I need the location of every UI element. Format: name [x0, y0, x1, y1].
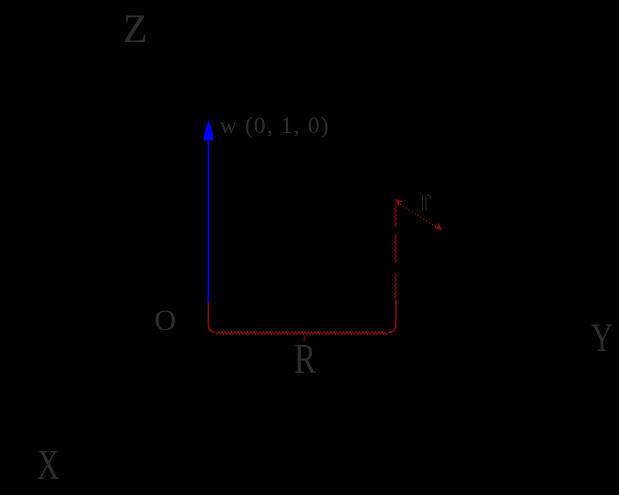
ghost label n-hat (letter strokes) [423, 195, 431, 211]
red dotted diagonal double-headed arrow [400, 204, 401, 205]
axis/origin label Y [591, 318, 613, 358]
axis/origin label X [37, 445, 59, 487]
diagonal arrowhead upper-left [396, 200, 403, 206]
small red tick above R label [304, 336, 306, 341]
red bottom zigzag dashed line (R edge) [216, 332, 389, 335]
diagonal arrowhead lower-right [435, 223, 442, 229]
axis/origin label O [154, 306, 176, 336]
label w (0, 1, 0) [220, 115, 330, 139]
axis/origin label Z [123, 9, 147, 49]
red right vertical zigzag dashed segments [395, 205, 397, 227]
vector w arrowhead [204, 119, 213, 141]
axis/origin label R [294, 339, 316, 381]
red path left solid stub [208, 303, 214, 333]
vector w arrow shaft [207, 141, 209, 303]
red path right corner solid [389, 300, 396, 333]
